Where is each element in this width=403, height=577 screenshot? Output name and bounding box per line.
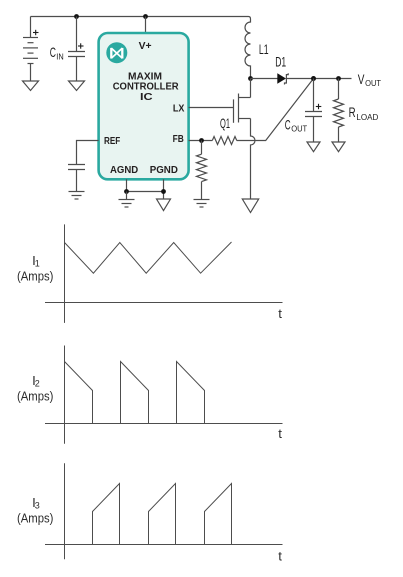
ground (COUT)	[307, 142, 320, 152]
wire AGND stub	[126, 179, 128, 191]
ground (battery)	[23, 81, 39, 91]
wire FB	[189, 140, 213, 142]
svg-text:Q1: Q1	[220, 116, 230, 131]
resistor R1 (FB upper, horizontal)	[212, 137, 236, 145]
wire V+ stub	[145, 17, 147, 34]
node: L1/Q1 drain/D1 junction	[248, 76, 253, 81]
wire diode to VOUT	[286, 78, 351, 80]
waveform I3 (switch current)	[93, 484, 232, 545]
wire top rail (battery to L1)	[31, 16, 249, 18]
svg-text:D1: D1	[275, 54, 286, 69]
node VOUT (COUT junction)	[311, 76, 316, 81]
svg-text:(Amps): (Amps)	[17, 268, 53, 283]
svg-text:2: 2	[35, 378, 40, 388]
svg-text:REF: REF	[104, 136, 120, 147]
svg-text:V+: V+	[139, 41, 152, 52]
node: CIN top junction	[74, 14, 79, 19]
svg-text:AGND: AGND	[110, 165, 138, 176]
node: V+ junction on rail	[143, 14, 148, 19]
svg-text:(Amps): (Amps)	[17, 510, 53, 525]
ground (R2, 3-line)	[194, 200, 210, 208]
Maxim logo	[106, 42, 127, 63]
battery plus sign	[33, 30, 39, 35]
graph 3 axes	[45, 463, 283, 559]
node RLOAD junction	[336, 76, 341, 81]
ground (AGND, 3-line)	[119, 192, 135, 208]
svg-text:t: t	[278, 426, 282, 441]
svg-text:C: C	[285, 117, 291, 132]
svg-text:OUT: OUT	[291, 125, 307, 134]
wire AGND-PGND rail	[127, 191, 164, 193]
svg-text:OUT: OUT	[365, 79, 381, 88]
ground (RLOAD)	[332, 142, 345, 152]
svg-text:LOAD: LOAD	[356, 113, 378, 122]
resistor RLOAD	[334, 79, 344, 143]
node FB	[199, 138, 204, 143]
svg-text:L1: L1	[259, 42, 269, 57]
capacitor CIN	[68, 17, 85, 82]
waveform I1 (inductor current)	[65, 242, 232, 273]
svg-text:IN: IN	[56, 52, 64, 61]
svg-text:t: t	[278, 306, 282, 321]
svg-text:C: C	[50, 45, 56, 60]
ground (PGND, open triangle)	[157, 199, 171, 211]
svg-text:3: 3	[35, 500, 40, 510]
wire drain node to diode	[251, 78, 278, 80]
svg-text:V: V	[358, 72, 365, 87]
svg-text:IC: IC	[140, 92, 153, 103]
graph 2 axes	[45, 346, 283, 444]
svg-text:CONTROLLER: CONTROLLER	[113, 81, 180, 92]
graph 1 axes	[45, 224, 283, 323]
node AGND	[124, 189, 129, 194]
battery B1	[23, 17, 38, 82]
svg-text:R: R	[349, 105, 356, 120]
svg-text:FB: FB	[173, 134, 184, 145]
inductor L1	[245, 17, 251, 79]
svg-text:1: 1	[35, 258, 40, 268]
resistor R2 (FB lower, vertical)	[197, 141, 207, 200]
ground (CIN)	[69, 81, 85, 91]
wire FB resistor to diagonal up to VOUT node	[237, 79, 314, 141]
diode D1 (schottky)	[278, 73, 289, 84]
transistor Q1 (NMOS)	[234, 79, 251, 123]
CIN plus sign	[78, 43, 84, 48]
ground (Q1 source, open triangle)	[242, 199, 258, 213]
waveform I2 (diode current)	[65, 362, 205, 424]
svg-text:t: t	[278, 549, 282, 564]
node PGND	[161, 189, 166, 194]
wire REF	[77, 141, 99, 165]
wire LX to gate	[189, 107, 234, 109]
controller U1: MAXIM CONTROLLER IC body	[99, 33, 189, 179]
svg-text:LX: LX	[173, 103, 185, 114]
capacitor C (REF bypass)	[68, 165, 85, 192]
svg-text:(Amps): (Amps)	[17, 388, 53, 403]
wire PGND stub	[163, 179, 165, 199]
COUT plus sign	[316, 104, 322, 109]
capacitor COUT	[305, 79, 322, 143]
wire Q1 source down to ground (hops around FB wire)	[251, 119, 255, 200]
svg-text:PGND: PGND	[150, 165, 178, 176]
ground (REF cap, 3-line)	[69, 192, 85, 200]
